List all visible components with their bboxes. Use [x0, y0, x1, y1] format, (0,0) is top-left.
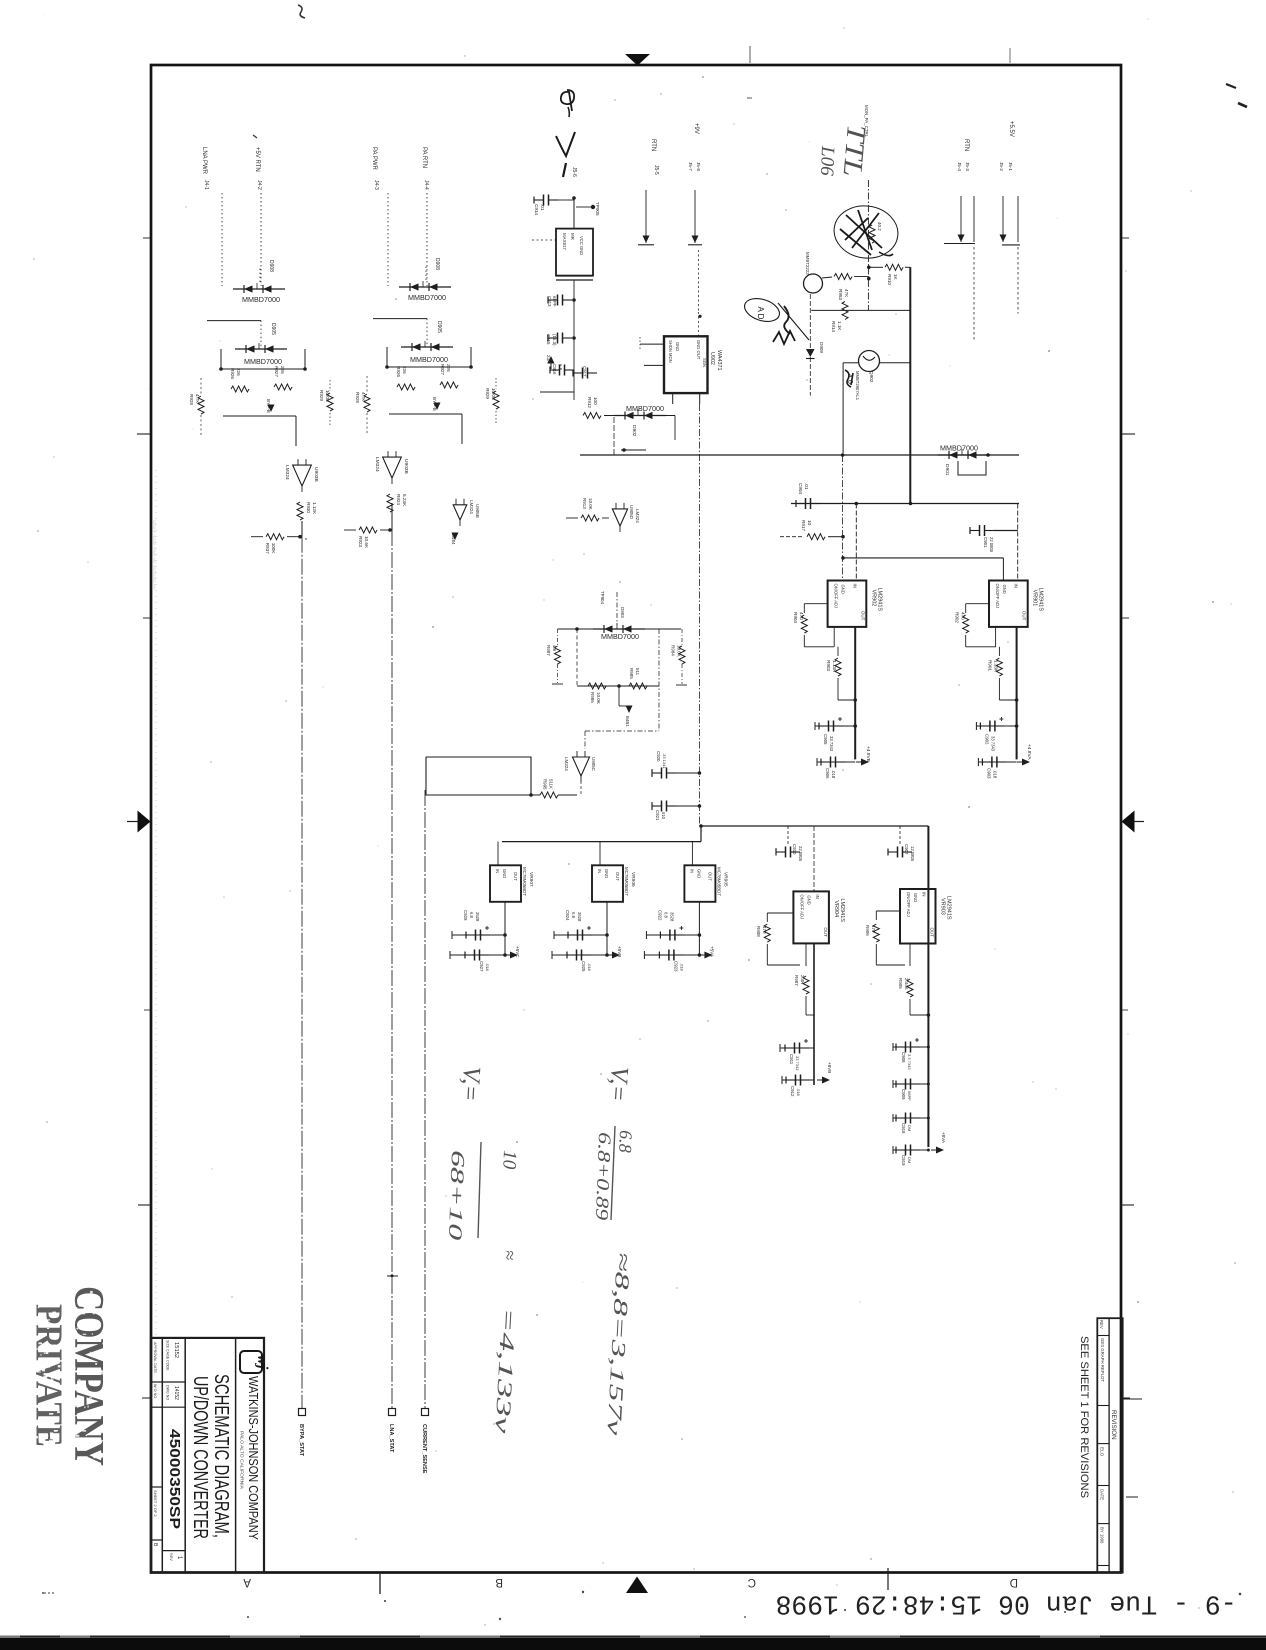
svg-text:COMPANY: COMPANY — [65, 1286, 111, 1466]
svg-text:C916: C916 — [552, 364, 557, 375]
svg-text:R987: R987 — [794, 975, 799, 986]
svg-text:10.0K: 10.0K — [677, 645, 682, 657]
svg-text:VR905: VR905 — [722, 872, 728, 887]
svg-text:MMBD7000: MMBD7000 — [626, 404, 664, 413]
svg-text:OUT: OUT — [823, 927, 828, 937]
svg-text:22 0805: 22 0805 — [989, 537, 994, 553]
svg-text:D909: D909 — [819, 342, 824, 353]
svg-text:14152: 14152 — [173, 1386, 179, 1400]
svg-text:W O NO: W O NO — [153, 1384, 157, 1398]
svg-text:VR903: VR903 — [940, 898, 946, 915]
svg-text:D903: D903 — [620, 607, 625, 618]
svg-text:5.23K: 5.23K — [402, 494, 407, 507]
svg-text:MR: MR — [570, 233, 575, 240]
svg-text:R987: R987 — [546, 645, 551, 656]
svg-text:LM2941S: LM2941S — [876, 588, 882, 612]
svg-text:IN: IN — [852, 584, 857, 589]
svg-text:68+10: 68+10 — [444, 1150, 468, 1242]
svg-text:+5VA: +5VA — [709, 946, 714, 958]
svg-text:226: 226 — [236, 368, 241, 376]
svg-text:100: 100 — [593, 397, 598, 405]
svg-text:470: 470 — [799, 612, 804, 620]
svg-text:RTN: RTN — [963, 139, 969, 151]
svg-text:ON/OFF ADJ: ON/OFF ADJ — [995, 584, 1000, 609]
svg-text:1.1K: 1.1K — [837, 321, 842, 331]
svg-text:R985: R985 — [629, 668, 634, 679]
svg-text:R929: R929 — [319, 390, 324, 401]
svg-text:LM324: LM324 — [564, 757, 569, 771]
svg-text:B: B — [495, 1576, 503, 1588]
svg-text:C917: C917 — [582, 366, 587, 377]
svg-text:U905D: U905D — [629, 505, 634, 520]
svg-text:R912: R912 — [587, 397, 592, 408]
svg-text:GND: GND — [1002, 585, 1007, 594]
svg-text:.018: .018 — [992, 770, 997, 779]
svg-text:UP/DOWN CONVERTER: UP/DOWN CONVERTER — [189, 1376, 212, 1539]
svg-text:33 7343: 33 7343 — [829, 736, 834, 752]
svg-text:ON/OFF ADJ: ON/OFF ADJ — [834, 584, 839, 609]
svg-text:C906: C906 — [825, 768, 830, 779]
svg-text:2.4K: 2.4K — [800, 975, 805, 984]
svg-text:DM: DM — [907, 1157, 912, 1163]
svg-text:1.13K: 1.13K — [832, 660, 837, 673]
svg-text:TTL: TTL — [837, 123, 871, 177]
svg-text:15152: 15152 — [173, 1342, 179, 1358]
svg-text:J5-4: J5-4 — [957, 162, 962, 171]
svg-text:TP905: TP905 — [595, 202, 600, 216]
svg-text:VCC GND: VCC GND — [579, 236, 584, 255]
svg-text:LM324: LM324 — [374, 457, 380, 472]
svg-text:C925: C925 — [581, 961, 586, 972]
svg-text:470: 470 — [871, 925, 876, 933]
svg-text:C919: C919 — [901, 1155, 906, 1166]
svg-text:6.8: 6.8 — [571, 912, 576, 918]
svg-text:4.7K: 4.7K — [195, 394, 200, 404]
svg-text:33 7343: 33 7343 — [795, 1056, 800, 1071]
svg-text:47K: 47K — [844, 289, 849, 298]
svg-text:SCHEMATIC DIAGRAM,: SCHEMATIC DIAGRAM, — [210, 1374, 233, 1538]
svg-text:C927: C927 — [479, 961, 484, 972]
svg-text:C905: C905 — [823, 734, 828, 745]
svg-text:C903: C903 — [986, 768, 991, 779]
svg-text:+5VB: +5VB — [617, 946, 622, 957]
svg-text:OUT: OUT — [1022, 611, 1027, 621]
svg-text:10.0K: 10.0K — [325, 390, 330, 403]
svg-text:SHDN MON: SHDN MON — [668, 340, 673, 363]
svg-text:A D: A D — [756, 307, 765, 320]
svg-text:C913: C913 — [547, 296, 552, 307]
svg-text:R995: R995 — [543, 779, 548, 790]
svg-text:.018: .018 — [587, 963, 592, 972]
svg-text:LM2941S: LM2941S — [1038, 588, 1044, 612]
svg-text:470: 470 — [762, 926, 767, 934]
svg-text:D: D — [1010, 1576, 1018, 1588]
svg-text:MAX817: MAX817 — [562, 233, 567, 250]
svg-text:J4-1: J4-1 — [203, 180, 209, 190]
svg-text:C923: C923 — [673, 961, 678, 972]
svg-text:J5-8: J5-8 — [696, 162, 701, 171]
svg-text:DM: DM — [907, 1125, 912, 1131]
svg-text:C908: C908 — [901, 1052, 906, 1063]
svg-text:R901: R901 — [987, 660, 992, 671]
svg-text:J4-2: J4-2 — [256, 180, 262, 190]
svg-text:DWG NO: DWG NO — [166, 1385, 170, 1400]
svg-text:+8VA: +8VA — [941, 1132, 946, 1144]
svg-text:BY 1996: BY 1996 — [1100, 1527, 1105, 1544]
svg-text:C921: C921 — [655, 810, 660, 821]
svg-text:C914: C914 — [534, 204, 539, 215]
svg-text:R903: R903 — [826, 660, 831, 671]
svg-text:C909: C909 — [901, 1089, 906, 1100]
svg-text:J4-4: J4-4 — [423, 180, 429, 190]
svg-text:R924: R924 — [396, 494, 401, 505]
svg-text:MMBD7000: MMBD7000 — [408, 293, 446, 302]
svg-text:U905B: U905B — [475, 504, 480, 518]
svg-text:.01: .01 — [804, 483, 809, 490]
svg-text:J5-2: J5-2 — [999, 162, 1004, 171]
svg-text:511: 511 — [635, 668, 640, 676]
svg-text:J5-7: J5-7 — [688, 162, 693, 171]
svg-text:LM2941S: LM2941S — [839, 898, 845, 922]
svg-text:226: 226 — [280, 366, 285, 374]
svg-text:J5-3: J5-3 — [965, 162, 970, 171]
svg-text:3528: 3528 — [577, 912, 582, 922]
svg-text:12 0805: 12 0805 — [910, 846, 915, 862]
svg-text:C907: C907 — [904, 844, 909, 855]
svg-text:VR906: VR906 — [630, 872, 636, 887]
svg-text:R986: R986 — [590, 692, 595, 703]
svg-text:SHEET 2 OF 2: SHEET 2 OF 2 — [153, 1490, 158, 1517]
svg-text:ELO: ELO — [1100, 1447, 1105, 1457]
svg-text:GND: GND — [696, 869, 701, 878]
svg-text:D908: D908 — [268, 260, 274, 272]
svg-text:R926: R926 — [230, 368, 235, 379]
svg-text:LM324: LM324 — [469, 500, 474, 514]
svg-text:VR907: VR907 — [528, 872, 534, 887]
svg-text:GND: GND — [913, 893, 918, 902]
svg-text:MC78M05BDT: MC78M05BDT — [716, 867, 721, 896]
svg-text:R927: R927 — [440, 364, 445, 375]
svg-text:VR902: VR902 — [870, 590, 876, 607]
svg-text:R914: R914 — [831, 321, 836, 332]
svg-text:OUT: OUT — [707, 872, 712, 881]
svg-text:BYPA_STAT: BYPA_STAT — [298, 1424, 304, 1457]
svg-text:1.33K: 1.33K — [993, 660, 998, 673]
svg-text:.018: .018 — [485, 963, 490, 972]
svg-text:U905C: U905C — [591, 757, 596, 772]
svg-text:.018: .018 — [796, 1088, 801, 1097]
svg-text:R923: R923 — [358, 536, 363, 547]
svg-text:R917: R917 — [801, 520, 806, 531]
svg-text:SGN: SGN — [702, 358, 707, 367]
svg-text:D905: D905 — [436, 321, 442, 333]
svg-text:MC78M05BDT: MC78M05BDT — [624, 867, 629, 896]
svg-text:MMBD7000: MMBD7000 — [410, 355, 448, 364]
svg-text:IN: IN — [815, 894, 820, 899]
svg-text:10: 10 — [498, 1150, 520, 1170]
svg-text:REV: REV — [1099, 1320, 1104, 1329]
svg-text:TP904: TP904 — [600, 591, 605, 604]
svg-text:C902: C902 — [984, 734, 989, 745]
svg-text:.01: .01 — [540, 204, 545, 211]
svg-text:GND: GND — [806, 895, 811, 904]
svg-text:SEE SHEET 1 FOR REVISIONS: SEE SHEET 1 FOR REVISIONS — [1078, 1336, 1090, 1498]
svg-text:100K: 100K — [271, 543, 276, 555]
svg-text:D905: D905 — [270, 323, 276, 335]
svg-text:MMBD7000: MMBD7000 — [242, 295, 280, 304]
svg-text:3528: 3528 — [475, 912, 480, 922]
svg-text:U903B: U903B — [313, 467, 319, 482]
svg-text:+5V RTN: +5V RTN — [254, 147, 260, 172]
svg-text:470: 470 — [960, 612, 965, 620]
svg-text:V,=: V,= — [604, 1066, 633, 1103]
svg-text:D908: D908 — [434, 258, 440, 270]
svg-text:ON/OFF ADJ: ON/OFF ADJ — [799, 894, 804, 919]
svg-text:+9V: +9V — [693, 123, 699, 134]
svg-text:≈: ≈ — [500, 1250, 520, 1261]
svg-text:PALO ALTO CALIFORNIA: PALO ALTO CALIFORNIA — [240, 1431, 245, 1489]
svg-text:IN: IN — [495, 869, 500, 873]
svg-text:WA4371: WA4371 — [716, 350, 722, 370]
svg-text:IN: IN — [1014, 584, 1019, 589]
svg-text:MMBD7000: MMBD7000 — [244, 357, 282, 366]
svg-text:6.8: 6.8 — [615, 1130, 636, 1153]
svg-text:R905: R905 — [898, 978, 903, 989]
svg-text:56PF: 56PF — [907, 1091, 912, 1101]
svg-text:40.2: 40.2 — [877, 222, 882, 231]
svg-text:RTN: RTN — [650, 139, 656, 151]
svg-text:REVISION: REVISION — [1110, 1410, 1117, 1440]
svg-text:2.44K: 2.44K — [904, 978, 909, 990]
svg-text:4.7K: 4.7K — [361, 392, 366, 402]
svg-text:LM2941S: LM2941S — [946, 896, 952, 920]
svg-text:10.0K: 10.0K — [588, 498, 593, 510]
svg-text:OUT: OUT — [615, 872, 620, 881]
svg-text:LM324: LM324 — [635, 509, 640, 523]
svg-text:≈8,8=3,157v: ≈8,8=3,157v — [602, 1252, 634, 1436]
svg-text:33 7343: 33 7343 — [990, 736, 995, 752]
svg-text:+5VC: +5VC — [515, 946, 520, 958]
svg-text:(16.3): (16.3) — [552, 334, 557, 346]
svg-text:MMBT2907AL1: MMBT2907AL1 — [855, 371, 860, 401]
svg-text:C920: C920 — [656, 751, 661, 762]
svg-text:VR901: VR901 — [1032, 590, 1038, 607]
svg-text:10.6K: 10.6K — [364, 536, 369, 549]
svg-text:OUT: OUT — [860, 611, 865, 621]
svg-text:R910: R910 — [887, 274, 892, 285]
svg-text:10.0K: 10.0K — [596, 692, 601, 704]
svg-text:REV: REV — [169, 1553, 173, 1561]
svg-text:WATKINS-JOHNSON COMPANY: WATKINS-JOHNSON COMPANY — [246, 1376, 260, 1541]
svg-text:GND: GND — [502, 869, 507, 878]
svg-text:PA PWR: PA PWR — [371, 147, 377, 171]
svg-text:LNA_STAT: LNA_STAT — [388, 1424, 394, 1453]
svg-text:1K: 1K — [893, 274, 898, 281]
svg-text:R953: R953 — [838, 289, 843, 300]
svg-text:GND: GND — [841, 585, 846, 594]
svg-text:U903B: U903B — [403, 459, 409, 474]
svg-text:J5-6: J5-6 — [571, 167, 577, 177]
svg-text:R908: R908 — [756, 926, 761, 937]
svg-text:610: 610 — [661, 812, 666, 820]
svg-text:10: 10 — [807, 520, 812, 526]
svg-text:+4.8VB: +4.8VB — [865, 746, 871, 762]
svg-text:511K: 511K — [549, 779, 554, 789]
svg-text:6.8: 6.8 — [663, 912, 668, 918]
svg-text:A: A — [243, 1576, 251, 1588]
svg-text:226: 226 — [446, 364, 451, 372]
svg-text:R928: R928 — [355, 392, 360, 403]
svg-text:C928: C928 — [463, 910, 468, 921]
svg-text:PA RTN: PA RTN — [421, 147, 427, 168]
svg-text:+5.5V: +5.5V — [1008, 121, 1014, 137]
svg-text:MMBD7000: MMBD7000 — [601, 632, 639, 641]
svg-text:+8VB: +8VB — [827, 1062, 832, 1073]
svg-text:IN: IN — [689, 869, 694, 873]
svg-text:3.3 7343: 3.3 7343 — [907, 1054, 912, 1070]
svg-text:6.8: 6.8 — [469, 912, 474, 918]
svg-text:Q902: Q902 — [869, 371, 874, 383]
svg-text:C: C — [748, 1576, 756, 1588]
svg-text:CURRENT_SENSE: CURRENT_SENSE — [421, 1424, 427, 1474]
svg-text:4.6: 4.6 — [552, 645, 557, 652]
svg-text:-9 - Tue Jan 06 15:48:29 1998: -9 - Tue Jan 06 15:48:29 1998 — [775, 1589, 1236, 1619]
svg-text:10.0K: 10.0K — [491, 388, 496, 401]
svg-text:J4-3: J4-3 — [373, 180, 379, 190]
svg-text:C915: C915 — [546, 334, 551, 345]
svg-text:1: 1 — [176, 1556, 182, 1560]
svg-text:GES GRAPH REPLOT: GES GRAPH REPLOT — [1100, 1338, 1105, 1382]
svg-text:68PF: 68PF — [552, 296, 557, 307]
svg-text:MMBD7000: MMBD7000 — [940, 444, 978, 453]
svg-text:C911: C911 — [789, 1054, 794, 1065]
svg-text:B4B1: B4B1 — [625, 716, 630, 727]
svg-text:1.12K: 1.12K — [312, 502, 317, 515]
svg-text:VR904: VR904 — [833, 900, 839, 917]
svg-text:LNA PWR: LNA PWR — [201, 147, 207, 175]
svg-text:V,=: V,= — [456, 1066, 485, 1103]
svg-text:R926: R926 — [396, 366, 401, 377]
svg-text:U902: U902 — [709, 352, 715, 365]
svg-text:R906: R906 — [865, 925, 870, 936]
svg-text:DATE: DATE — [1100, 1489, 1105, 1500]
svg-text:.33 1341: .33 1341 — [662, 753, 667, 769]
svg-text:OUT: OUT — [513, 872, 518, 881]
svg-text:B: B — [152, 1543, 158, 1547]
svg-text:R913: R913 — [582, 498, 587, 509]
svg-text:OUT: OUT — [930, 928, 935, 938]
svg-text:=4,133v: =4,133v — [490, 1307, 521, 1435]
svg-text:R904: R904 — [793, 612, 798, 623]
svg-text:R928: R928 — [189, 394, 194, 405]
svg-text:R902: R902 — [954, 612, 959, 623]
svg-text:LM324: LM324 — [284, 465, 290, 480]
svg-text:C922: C922 — [657, 910, 662, 921]
svg-text:wj: wj — [254, 1355, 270, 1370]
svg-text:C924: C924 — [565, 910, 570, 921]
svg-text:R930: R930 — [306, 502, 311, 513]
svg-text:D902: D902 — [631, 425, 637, 437]
svg-text:+4.8VA: +4.8VA — [1026, 744, 1032, 760]
svg-text:6.8: 6.8 — [558, 364, 563, 371]
svg-text:D901: D901 — [944, 464, 950, 476]
svg-text:.018: .018 — [831, 770, 836, 779]
svg-text:C910: C910 — [792, 844, 797, 855]
svg-text:3528: 3528 — [669, 912, 674, 922]
svg-text:J5-5: J5-5 — [653, 165, 659, 175]
svg-text:R984: R984 — [671, 645, 676, 656]
svg-text:.018: .018 — [679, 963, 684, 972]
svg-text:ON/OFF ADJ: ON/OFF ADJ — [906, 892, 911, 917]
svg-text:APPROVAL DATE: APPROVAL DATE — [153, 1342, 157, 1373]
svg-text:SCALE NONE DWG NO 45000350 SH: SCALE NONE DWG NO 45000350 SH — [152, 520, 157, 589]
svg-text:R927: R927 — [274, 366, 279, 377]
svg-text:226: 226 — [402, 366, 407, 374]
svg-text:GND OUT: GND OUT — [696, 340, 701, 360]
svg-text:GND: GND — [675, 342, 680, 351]
svg-text:MMBT2222: MMBT2222 — [805, 252, 810, 275]
svg-text:J5-1: J5-1 — [1008, 162, 1013, 171]
svg-text:C918: C918 — [901, 1123, 906, 1134]
svg-text:MC78M05BDT: MC78M05BDT — [522, 867, 527, 896]
svg-text:22 0805: 22 0805 — [798, 846, 803, 862]
svg-text:R937: R937 — [265, 543, 270, 554]
svg-text:L06: L06 — [816, 145, 838, 177]
svg-text:IN: IN — [597, 869, 602, 873]
svg-text:SIZE CAGE CODE: SIZE CAGE CODE — [166, 1340, 170, 1371]
svg-text:C912: C912 — [790, 1086, 795, 1097]
svg-text:GND: GND — [604, 869, 609, 878]
svg-text:C904: C904 — [798, 483, 803, 494]
svg-text:C901: C901 — [983, 537, 988, 548]
svg-text:R929: R929 — [485, 388, 490, 399]
svg-text:45000350SP: 45000350SP — [166, 1429, 183, 1529]
svg-text:IN: IN — [922, 892, 927, 897]
